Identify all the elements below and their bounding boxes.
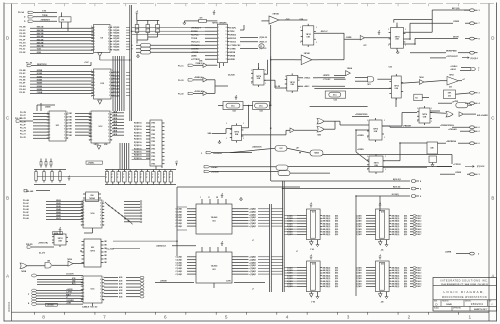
flipflop U36 lower bbox=[230, 123, 244, 142]
IC U14 bbox=[81, 200, 104, 228]
svg-text:C(1)B1: C(1)B1 bbox=[356, 286, 362, 288]
svg-text:P/3A-2: P/3A-2 bbox=[416, 220, 421, 223]
svg-text:-DRXRB: -DRXRB bbox=[47, 305, 55, 307]
svg-text:MDRSPEED: MDRSPEED bbox=[446, 51, 457, 53]
net rows right of taps bbox=[124, 201, 142, 223]
buffer below U12 bbox=[94, 143, 109, 149]
flipflop U38 bbox=[367, 118, 384, 142]
stadium +5 gate right bbox=[452, 101, 472, 107]
wire U36 to buffer bbox=[241, 130, 317, 135]
svg-text:AB (B)(1): AB (B)(1) bbox=[323, 228, 331, 231]
box U40 bbox=[427, 142, 438, 154]
wire ctrck row bbox=[437, 165, 452, 167]
buffer below U17 bbox=[310, 242, 314, 245]
vcc U20 top bbox=[379, 255, 382, 259]
wire below U18 bbox=[380, 240, 386, 243]
wire latch U62 bottom bbox=[213, 283, 215, 288]
svg-text:RXCK2: RXCK2 bbox=[230, 38, 236, 40]
output connector +PRESET/DIS/L bbox=[440, 125, 481, 129]
svg-text:RESTRCK: RESTRCK bbox=[37, 64, 47, 66]
svg-text:1YB1: 1YB1 bbox=[151, 130, 155, 132]
svg-text:9: 9 bbox=[218, 55, 219, 57]
flipflop U42 bbox=[367, 154, 385, 174]
svg-text:P/L-9C: P/L-9C bbox=[20, 30, 27, 32]
vcc U62 top bbox=[221, 242, 224, 246]
input RESTRCK bbox=[26, 63, 59, 67]
svg-text:6: 6 bbox=[218, 45, 219, 47]
pin numbers speckle left ICs bbox=[47, 26, 113, 302]
svg-text:KDB: KDB bbox=[37, 52, 42, 54]
svg-text:P/L-7J: P/L-7J bbox=[20, 134, 26, 136]
IC U13 tall label table bbox=[150, 120, 165, 166]
vcc U17 top bbox=[310, 203, 313, 207]
junction dot between delays bbox=[248, 105, 250, 107]
svg-text:+(1)(B)1: +(1)(B)1 bbox=[249, 257, 256, 259]
svg-text:P/L-6C: P/L-6C bbox=[23, 203, 30, 205]
svg-text:-DATASCK: -DATASCK bbox=[252, 146, 262, 149]
wire y88.6 bbox=[314, 88, 391, 90]
connector input TXD bbox=[24, 15, 57, 19]
svg-text:AB (B)(1): AB (B)(1) bbox=[323, 217, 331, 220]
svg-text:KBC7B: KBC7B bbox=[37, 46, 44, 48]
svg-text:P/3A-7: P/3A-7 bbox=[416, 233, 421, 236]
wire DDOR from U4B bbox=[403, 38, 458, 44]
wire stadium chain bbox=[218, 56, 271, 105]
svg-text:C(1)B1: C(1)B1 bbox=[356, 278, 362, 280]
label -(T)SEL bbox=[86, 161, 103, 165]
wire preset chain bbox=[356, 130, 369, 162]
wire DP2 route bbox=[136, 37, 158, 52]
vcc U19 top bbox=[310, 255, 313, 259]
op-amp 74F04 right edge bbox=[447, 74, 465, 89]
svg-text:U30: U30 bbox=[449, 87, 452, 89]
svg-text:+REFRESH: +REFRESH bbox=[446, 141, 457, 143]
box 74F1 U30 right edge bbox=[444, 90, 456, 99]
wire U35 out VSEL3 bbox=[318, 77, 345, 79]
svg-text:P/L-8G: P/L-8G bbox=[20, 86, 27, 88]
buffer U44A bbox=[203, 63, 207, 67]
svg-text:R(1)B1: R(1)B1 bbox=[113, 79, 119, 81]
wire U14 bottom stubs bbox=[84, 228, 93, 233]
svg-text:P/L-8B: P/L-8B bbox=[20, 70, 27, 72]
svg-text:R(1)B1: R(1)B1 bbox=[113, 72, 119, 74]
flipflop U51 bbox=[52, 232, 68, 247]
svg-text:6: 6 bbox=[164, 314, 167, 319]
signal group 5 upper rows bbox=[31, 274, 83, 285]
svg-text:(B)1: (B)1 bbox=[335, 275, 338, 277]
svg-text:UARB: UARB bbox=[191, 55, 197, 58]
svg-text:3000004: 3000004 bbox=[7, 301, 11, 312]
bus vertical x270 bbox=[270, 25, 272, 181]
label -DRXRB boxed bbox=[46, 303, 58, 306]
connector input TXRESET bbox=[24, 19, 57, 23]
svg-text:R(1)B1: R(1)B1 bbox=[113, 41, 119, 43]
U28 right net arrows bbox=[240, 37, 267, 50]
buffer U10A below bbox=[98, 100, 102, 104]
svg-text:C(1)B1: C(1)B1 bbox=[356, 232, 362, 234]
svg-text:C(1-B)1: C(1-B)1 bbox=[176, 262, 183, 264]
oval gate READ bbox=[276, 165, 288, 170]
input P/L-1D bbox=[178, 76, 203, 82]
svg-text:DL-2020: DL-2020 bbox=[107, 249, 114, 251]
svg-text:TTXCLK1: TTXCLK1 bbox=[191, 45, 200, 47]
vcc delay line bbox=[235, 95, 238, 99]
wire U35 out SEL1 bbox=[318, 85, 345, 87]
svg-text:FSCM NO.: FSCM NO. bbox=[442, 301, 449, 303]
svg-text:P/L-9H: P/L-9H bbox=[20, 46, 27, 48]
ground U36 bbox=[218, 140, 221, 144]
svg-text:VB1: VB1 bbox=[69, 123, 73, 125]
svg-text:-CTSRB: -CTSRB bbox=[191, 52, 199, 54]
vcc U4B bbox=[378, 31, 381, 35]
svg-text:P/L-9E: P/L-9E bbox=[20, 36, 27, 38]
svg-text:C(1-B)1: C(1-B)1 bbox=[176, 259, 183, 261]
svg-text:+TXD: +TXD bbox=[285, 19, 290, 21]
wire U34 stadium b out up bbox=[240, 25, 244, 30]
svg-text:U18: U18 bbox=[381, 212, 384, 214]
svg-text:B: B bbox=[6, 196, 9, 201]
output CRTCKOUT bbox=[446, 56, 478, 60]
svg-text:U2?: U2? bbox=[363, 45, 366, 47]
svg-text:1YB1: 1YB1 bbox=[151, 126, 155, 128]
IC U62 top pins bbox=[202, 247, 226, 252]
svg-text:8: 8 bbox=[42, 314, 45, 319]
IC U61 big latch bbox=[176, 204, 284, 234]
svg-text:DL2020: DL2020 bbox=[228, 75, 235, 77]
svg-text:+(1)(B)1: +(1)(B)1 bbox=[249, 214, 256, 216]
buffer U9A below bbox=[98, 53, 102, 57]
delay line U34 mid a bbox=[223, 102, 243, 113]
svg-text:+5: +5 bbox=[136, 11, 138, 13]
border frame outer left bbox=[3, 3, 5, 322]
svg-text:VA6B: VA6B bbox=[56, 214, 61, 217]
zone numbers bottom bbox=[42, 314, 471, 319]
svg-text:P/L-1E: P/L-1E bbox=[178, 94, 184, 96]
svg-text:UTDRAW.T: UTDRAW.T bbox=[191, 27, 202, 30]
svg-text:+SEL1: +SEL1 bbox=[304, 86, 310, 88]
signal group 3 wires bbox=[20, 112, 49, 139]
svg-text:1YB1: 1YB1 bbox=[151, 141, 155, 143]
svg-text:P/L-9D: P/L-9D bbox=[20, 33, 27, 35]
svg-text:C(1-B)1: C(1-B)1 bbox=[176, 217, 183, 219]
bus vertical x380 bbox=[379, 196, 381, 211]
bus vertical x269 lower pair bbox=[269, 204, 271, 292]
svg-text:8: 8 bbox=[218, 52, 219, 54]
wire data/clk bbox=[172, 245, 196, 247]
wire stadium U41 out bbox=[323, 155, 452, 165]
svg-text:-CTSRLCK2: -CTSRLCK2 bbox=[230, 45, 241, 47]
IC U52 medium bbox=[82, 239, 108, 267]
output connector DDOR bbox=[453, 36, 481, 40]
svg-text:+VIDEN: +VIDEN bbox=[357, 135, 364, 137]
or gate U30B mid bbox=[317, 127, 324, 133]
svg-text:(B)1: (B)1 bbox=[335, 286, 338, 288]
wire U28 bottom pins bbox=[220, 63, 224, 68]
op-amp U6D bbox=[261, 13, 307, 25]
svg-text:3: 3 bbox=[218, 34, 219, 36]
svg-text:(B)1: (B)1 bbox=[335, 223, 338, 225]
op-amp U2B mid bbox=[295, 52, 318, 65]
wire below U19 bbox=[311, 292, 317, 295]
svg-text:AB (B)(1): AB (B)(1) bbox=[323, 272, 331, 275]
svg-text:(B)1: (B)1 bbox=[404, 232, 407, 234]
svg-text:P/3A-7: P/3A-7 bbox=[416, 285, 421, 288]
svg-text:-1/3CMB3: -1/3CMB3 bbox=[66, 300, 74, 302]
svg-text:+5: +5 bbox=[221, 194, 223, 196]
svg-text:U52: U52 bbox=[91, 247, 94, 249]
ground U61 bbox=[239, 197, 242, 201]
svg-text:+5: +5 bbox=[379, 203, 381, 205]
svg-text:(B)1: (B)1 bbox=[404, 218, 407, 220]
ground U40B bbox=[431, 163, 434, 167]
svg-text:VA4B: VA4B bbox=[56, 208, 61, 211]
wires U62 rows to U19 rows bbox=[284, 268, 297, 287]
svg-text:VA2B: VA2B bbox=[56, 202, 61, 205]
wire row below U62 left bbox=[155, 281, 194, 283]
svg-text:P/L-6H: P/L-6H bbox=[23, 218, 30, 220]
svg-text:AB (B)(1): AB (B)(1) bbox=[323, 277, 331, 280]
buffer below U19 bbox=[310, 294, 314, 297]
wire below U17 bbox=[311, 240, 317, 243]
svg-text:P/L-7C: P/L-7C bbox=[20, 115, 27, 117]
svg-text:2: 2 bbox=[478, 67, 479, 69]
svg-text:C(1)B1: C(1)B1 bbox=[356, 270, 362, 272]
svg-text:K5BB: K5BB bbox=[37, 86, 43, 88]
svg-text:20ns: 20ns bbox=[333, 94, 337, 96]
ground U20 bbox=[385, 295, 388, 299]
input +RXDATA bbox=[201, 148, 275, 155]
flipflop U4B top bbox=[389, 25, 406, 50]
svg-text:20ns: 20ns bbox=[259, 105, 263, 107]
flipflop U34 bbox=[285, 73, 300, 93]
svg-text:C(1-B)1: C(1-B)1 bbox=[176, 214, 183, 216]
svg-text:+L4XXB: +L4XXB bbox=[66, 288, 73, 291]
svg-text:VA1B: VA1B bbox=[56, 199, 61, 202]
svg-text:AB (B)(1): AB (B)(1) bbox=[323, 233, 331, 236]
resistor bank +5 bbox=[68, 176, 71, 180]
wire U15 down stubs bbox=[92, 303, 94, 306]
svg-text:AB (B)(1): AB (B)(1) bbox=[392, 214, 400, 217]
flipflop U33 bbox=[251, 67, 266, 87]
wires AND U30A inputs bbox=[355, 77, 368, 81]
IC U61 top pins bbox=[200, 197, 226, 204]
IC U9 octal buffer bbox=[91, 25, 112, 53]
IC U17 RAM bbox=[287, 209, 338, 240]
svg-text:KBC2B: KBC2B bbox=[37, 30, 44, 32]
wires U33 to U34 bbox=[264, 60, 285, 88]
svg-text:VCB: VCB bbox=[37, 49, 42, 51]
svg-text:K2BB: K2BB bbox=[37, 76, 43, 78]
svg-text:74F240: 74F240 bbox=[272, 13, 278, 16]
svg-text:R(1)B1: R(1)B1 bbox=[113, 47, 119, 49]
svg-text:P/L-7D: P/L-7D bbox=[20, 118, 27, 120]
wire U13 to CP area bbox=[156, 166, 162, 170]
svg-text:P/3A-1: P/3A-1 bbox=[416, 269, 421, 272]
svg-text:R(1)B1 A: R(1)B1 A bbox=[134, 141, 142, 144]
svg-text:(B)1: (B)1 bbox=[335, 215, 338, 217]
svg-text:U30: U30 bbox=[448, 96, 451, 98]
svg-text:U30: U30 bbox=[389, 67, 392, 69]
svg-text:9: 9 bbox=[226, 45, 227, 47]
svg-text:(B)1: (B)1 bbox=[335, 281, 338, 283]
svg-text:U37: U37 bbox=[279, 148, 282, 150]
wire RX1 to U28 bbox=[151, 44, 206, 46]
svg-text:B: B bbox=[491, 196, 494, 201]
svg-text:B(1): B(1) bbox=[72, 283, 76, 285]
wire buffer U44A out bbox=[207, 64, 217, 66]
vcc U61 top bbox=[221, 194, 224, 198]
svg-text:P/L-6E: P/L-6E bbox=[23, 209, 30, 211]
oval gate U41 CLMP bbox=[310, 150, 323, 156]
input P/L-1C bbox=[178, 63, 203, 68]
svg-text:2: 2 bbox=[408, 314, 411, 319]
resistor bank bottom rail bbox=[34, 184, 66, 186]
svg-text:SHEET 4 OF 7: SHEET 4 OF 7 bbox=[474, 308, 488, 311]
bus horizontal mid left bbox=[37, 176, 105, 178]
IC U28 UART bbox=[215, 24, 229, 63]
svg-text:+VSEL3: +VSEL3 bbox=[450, 66, 457, 68]
svg-text:TTXDE: TTXDE bbox=[191, 38, 198, 40]
wire preset dis bbox=[352, 115, 369, 117]
svg-text:KBC3B: KBC3B bbox=[37, 33, 44, 35]
stadium gate RX1 bbox=[141, 44, 151, 47]
svg-text:-VBA: -VBA bbox=[207, 132, 212, 135]
IC U10 octal buffer bbox=[91, 69, 113, 99]
svg-text:VA7B: VA7B bbox=[56, 217, 61, 220]
input +READ bbox=[204, 166, 276, 169]
svg-text:R(1)B1: R(1)B1 bbox=[113, 75, 119, 77]
svg-text:U34: U34 bbox=[259, 110, 262, 113]
svg-text:P/3A-3: P/3A-3 bbox=[416, 222, 421, 225]
svg-text:3: 3 bbox=[201, 153, 202, 155]
svg-text:74F04: 74F04 bbox=[67, 258, 72, 261]
wire RX3 to U28 bbox=[151, 51, 206, 53]
svg-text:R(1)B1 A: R(1)B1 A bbox=[134, 125, 142, 128]
wire U44B C vertical join bbox=[215, 80, 228, 94]
svg-text:R(1)B1: R(1)B1 bbox=[113, 95, 119, 97]
svg-text:-CTL.BC: -CTL.BC bbox=[323, 79, 331, 81]
svg-text:AB (B)(1): AB (B)(1) bbox=[323, 274, 331, 277]
svg-text:VB1: VB1 bbox=[69, 135, 73, 137]
wire U52 right to bus bbox=[113, 241, 177, 248]
svg-text:CLPB: CLPB bbox=[226, 281, 231, 283]
svg-text:AB (B)(1): AB (B)(1) bbox=[323, 283, 331, 286]
svg-text:P/L-7K: P/L-7K bbox=[20, 137, 27, 139]
svg-text:INTEGRATED SOLUTIONS INC.: INTEGRATED SOLUTIONS INC. bbox=[440, 280, 488, 283]
buffer U44C bbox=[203, 91, 207, 95]
svg-text:AB (B)(1): AB (B)(1) bbox=[392, 285, 400, 288]
svg-text:(B)1: (B)1 bbox=[404, 267, 407, 269]
svg-text:LS?: LS? bbox=[296, 148, 299, 150]
border frame bottom inner bbox=[12, 311, 490, 313]
svg-text:(B)1: (B)1 bbox=[404, 281, 407, 283]
wire buffer U44B out bbox=[207, 79, 215, 81]
svg-text:(P) 6-15: (P) 6-15 bbox=[260, 48, 267, 50]
svg-text:-CLP: -CLP bbox=[84, 62, 89, 64]
junction dot U52 input bbox=[80, 250, 82, 252]
wire DDRE out chain bbox=[403, 23, 453, 39]
title block scale row bbox=[434, 307, 488, 312]
svg-text:1YB1: 1YB1 bbox=[151, 160, 155, 162]
connector input CTS bbox=[18, 11, 57, 15]
svg-text:C(1-B)1: C(1-B)1 bbox=[176, 211, 183, 213]
svg-text:1YB1: 1YB1 bbox=[151, 145, 155, 147]
svg-text:AB (B)(1): AB (B)(1) bbox=[392, 225, 400, 228]
vcc U51 bbox=[59, 228, 62, 232]
svg-text:VA5B: VA5B bbox=[56, 211, 61, 214]
diagonal bus taps right of U14 bbox=[105, 202, 133, 224]
buffer U49 bbox=[68, 261, 73, 266]
svg-text:P/L-8J: P/L-8J bbox=[20, 92, 26, 94]
svg-text:U50: U50 bbox=[90, 195, 93, 197]
signal group 1 wires bbox=[20, 27, 94, 54]
svg-text:AB (B)(1): AB (B)(1) bbox=[323, 220, 331, 223]
svg-text:R(1)B1: R(1)B1 bbox=[113, 85, 119, 87]
bus vertical x283 bbox=[282, 181, 284, 292]
output connector +VSEL4/5 bbox=[448, 128, 481, 133]
ground U4B bbox=[396, 50, 399, 54]
svg-text:AB (B)(1): AB (B)(1) bbox=[323, 231, 331, 234]
bus vertical line x130 bbox=[129, 5, 131, 121]
IC U10 output labels bbox=[113, 72, 130, 97]
svg-text:+CTRCK: +CTRCK bbox=[453, 164, 461, 166]
svg-text:CABLE 7107.30: CABLE 7107.30 bbox=[82, 306, 98, 309]
svg-text:(B)1: (B)1 bbox=[335, 267, 338, 269]
svg-text:P/3A-1: P/3A-1 bbox=[416, 217, 421, 220]
svg-text:7: 7 bbox=[218, 48, 219, 50]
svg-text:C(1)B1: C(1)B1 bbox=[356, 215, 362, 217]
svg-text:A: A bbox=[6, 274, 9, 279]
svg-text:(B)1: (B)1 bbox=[404, 286, 407, 288]
label -CTL.BC bbox=[323, 79, 346, 81]
bus wire -10-18(1) bbox=[356, 194, 422, 198]
U28 left pin labels bbox=[191, 27, 215, 62]
svg-text:KBC6B: KBC6B bbox=[37, 42, 44, 44]
svg-text:1YB1: 1YB1 bbox=[151, 152, 155, 154]
output oval 3 right bbox=[470, 91, 481, 94]
svg-text:AB (B)(1): AB (B)(1) bbox=[392, 222, 400, 225]
svg-text:(B)1: (B)1 bbox=[404, 226, 407, 228]
svg-text:C(1-B)1: C(1-B)1 bbox=[176, 223, 183, 225]
svg-text:AB (B)(1): AB (B)(1) bbox=[323, 285, 331, 288]
border frame top bbox=[4, 3, 497, 5]
svg-text:-(T)SEL: -(T)SEL bbox=[88, 163, 96, 165]
oval gate U37 DATASCK bbox=[275, 146, 287, 152]
svg-text:(B)1: (B)1 bbox=[404, 284, 407, 286]
svg-text:U34: U34 bbox=[232, 110, 235, 113]
svg-text:1YB1: 1YB1 bbox=[151, 156, 155, 158]
svg-text:AB (B)(1): AB (B)(1) bbox=[392, 283, 400, 286]
svg-text:R(1)B1 A: R(1)B1 A bbox=[134, 138, 142, 141]
svg-text:REV: REV bbox=[489, 301, 492, 303]
wire U38 up to outputs bbox=[382, 113, 446, 128]
IC U12 right wires bbox=[112, 111, 124, 135]
input P/L-1E bbox=[178, 90, 203, 96]
wire crtckout row bbox=[430, 57, 446, 59]
svg-text:K3BB: K3BB bbox=[37, 79, 43, 81]
svg-text:(B)1: (B)1 bbox=[404, 234, 407, 236]
bus vertical x284 bbox=[283, 181, 285, 292]
bus vertical x271 lower pair bbox=[270, 204, 272, 292]
svg-text:WR2B: WR2B bbox=[230, 56, 236, 58]
and gate U48B bbox=[45, 263, 51, 269]
wires U28 left long bus bbox=[132, 28, 205, 35]
svg-text:(P)06-18: (P)06-18 bbox=[260, 37, 267, 39]
svg-text:L7: L7 bbox=[296, 251, 298, 253]
U35 right labels bbox=[298, 78, 318, 88]
svg-text:1YB1: 1YB1 bbox=[151, 134, 155, 136]
svg-text:VB1: VB1 bbox=[69, 126, 73, 128]
